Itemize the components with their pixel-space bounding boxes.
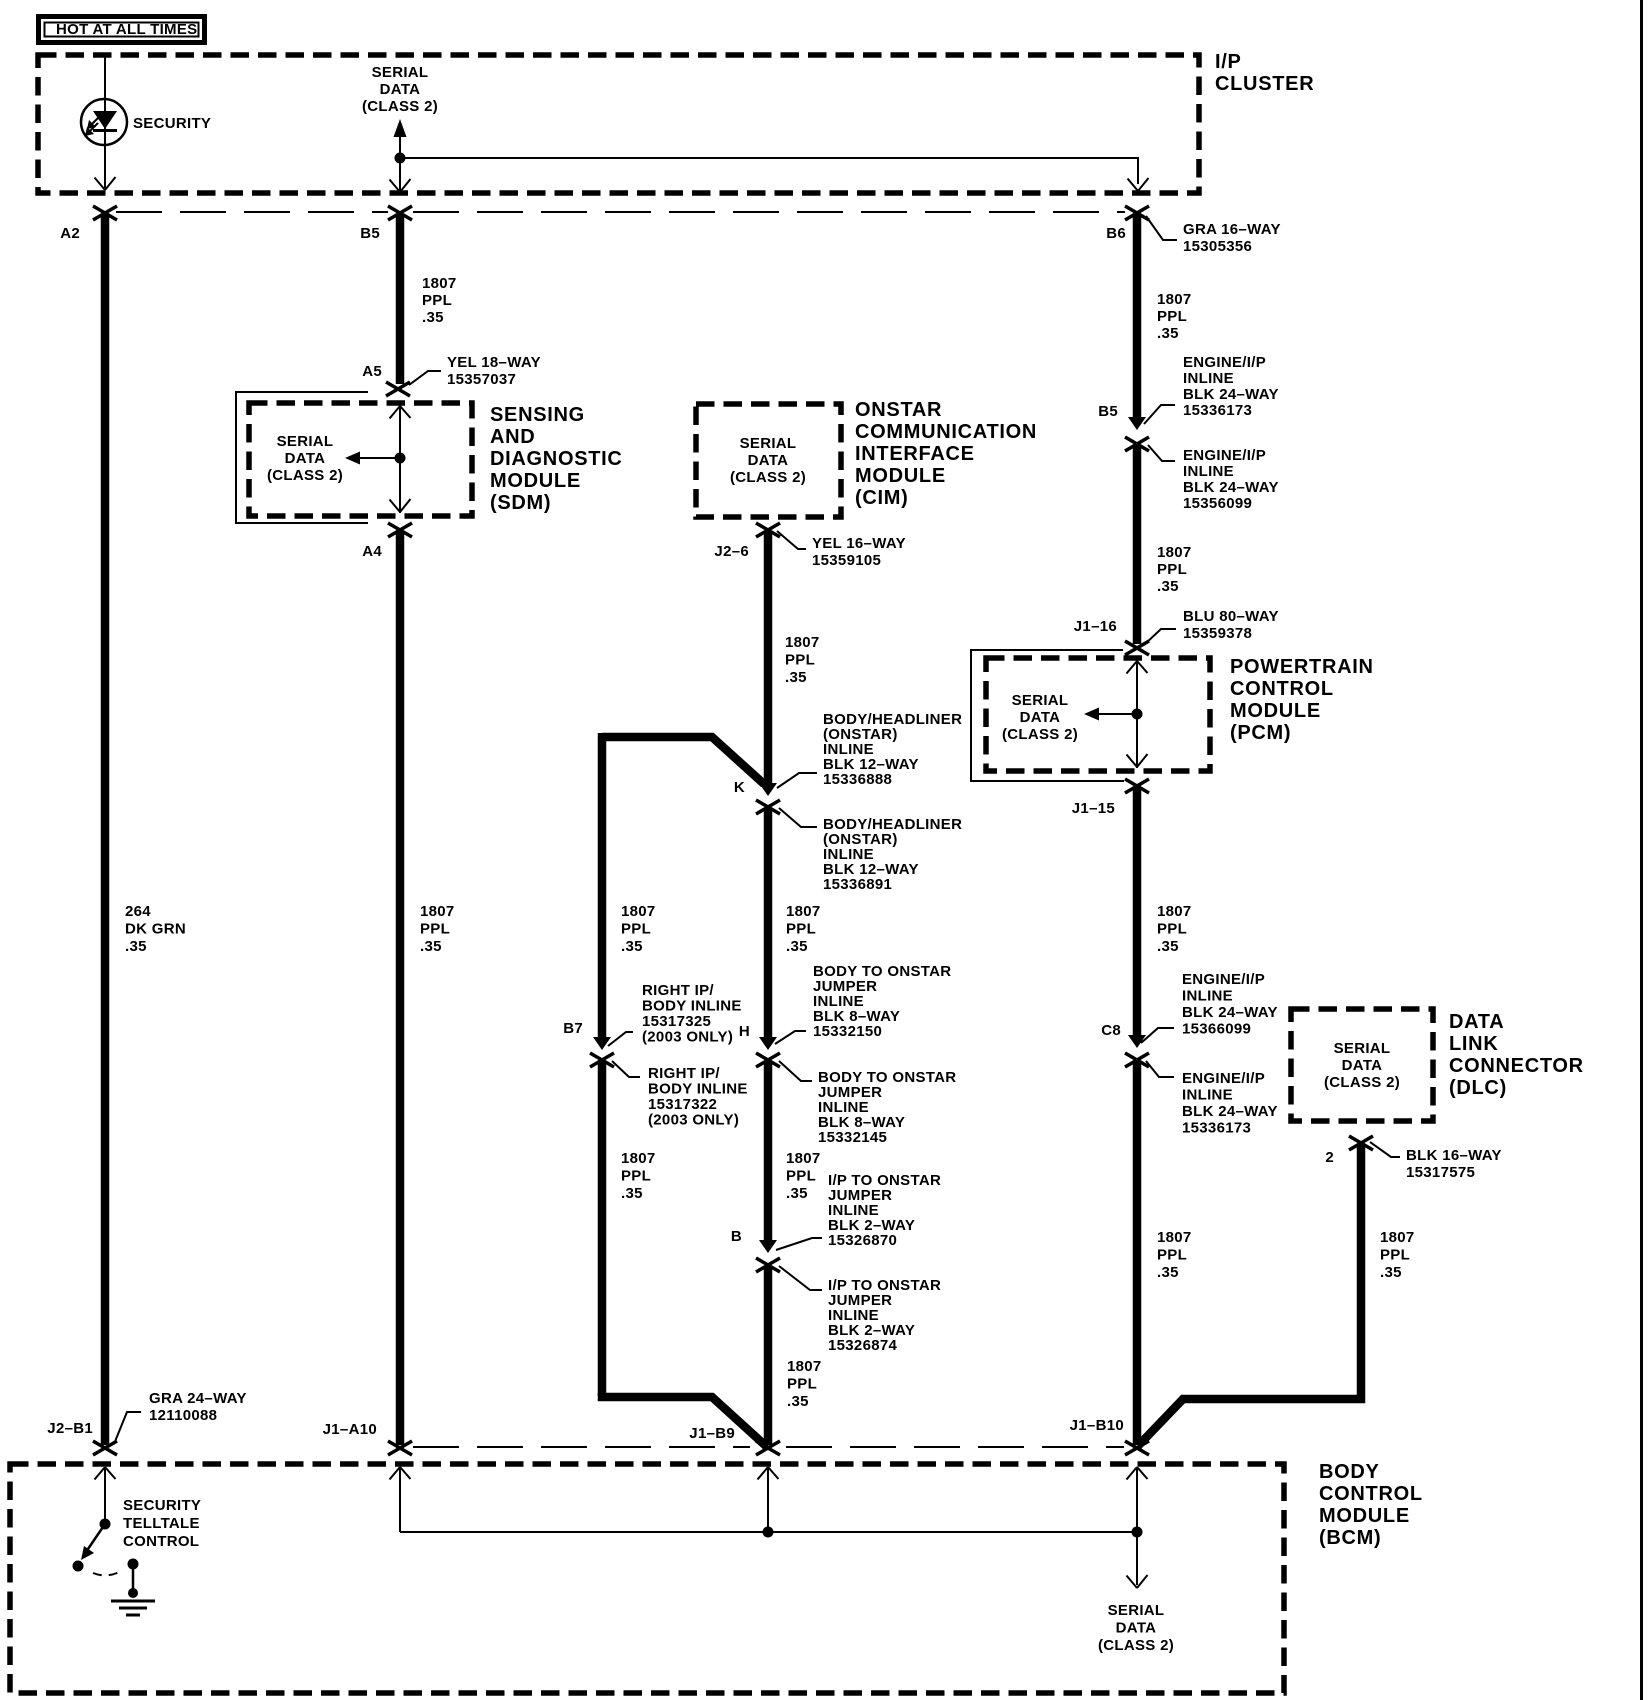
node A5 connector chevron [386, 382, 410, 396]
junction dot SDM [395, 453, 406, 464]
wire B7 vertical lower [598, 1062, 607, 1396]
connector bracket SDM [236, 392, 368, 523]
svg-text:BODY/HEADLINER(ONSTAR)INLINEBL: BODY/HEADLINER(ONSTAR)INLINEBLK 12–WAY15… [823, 711, 962, 788]
connector label BLK 16-WAY 15317575 [1370, 1142, 1502, 1181]
svg-text:C8: C8 [1101, 1022, 1121, 1039]
svg-text:1807PPL.35: 1807PPL.35 [1157, 544, 1192, 595]
svg-text:J2–B1: J2–B1 [47, 1420, 93, 1437]
module box PCM [986, 658, 1210, 771]
node B6 connector chevron [1125, 206, 1149, 220]
connector label ENGINE/I/P INLINE BLK 24-WAY 15366099 [1141, 971, 1278, 1043]
connector label BODY/HEADLINER (ONSTAR) INLINE BLK 12-WAY 15336891 [779, 808, 962, 893]
svg-text:ENGINE/I/PINLINEBLK 24–WAY1533: ENGINE/I/PINLINEBLK 24–WAY15336173 [1183, 354, 1279, 419]
svg-text:B: B [731, 1228, 742, 1245]
arrow down SDM bottom [390, 499, 411, 512]
node B inline arrow down [759, 1240, 777, 1253]
svg-text:A2: A2 [60, 225, 80, 242]
node J1-B10 connector chevron [1125, 1441, 1149, 1455]
svg-text:SERIALDATA(CLASS 2): SERIALDATA(CLASS 2) [730, 435, 806, 486]
svg-text:J2–6: J2–6 [714, 543, 749, 560]
svg-text:A5: A5 [362, 363, 382, 380]
svg-text:1807PPL.35: 1807PPL.35 [621, 1150, 656, 1202]
svg-text:BLU 80–WAY15359378: BLU 80–WAY15359378 [1183, 608, 1279, 642]
LED SECURITY indicator [81, 99, 127, 145]
wire B7 bend to J1-B9 [602, 1393, 767, 1447]
svg-text:2: 2 [1325, 1149, 1334, 1166]
svg-text:J1–A10: J1–A10 [323, 1421, 377, 1438]
svg-text:SERIALDATA(CLASS 2): SERIALDATA(CLASS 2) [362, 64, 438, 115]
wire to J1-16 1807 PPL [1133, 446, 1142, 644]
svg-text:J1–B9: J1–B9 [689, 1425, 735, 1442]
arrow up BCM J2-B1 entry [95, 1467, 116, 1521]
svg-text:ENGINE/I/PINLINEBLK 24–WAY1533: ENGINE/I/PINLINEBLK 24–WAY15336173 [1182, 1070, 1278, 1137]
connector label YEL 18-WAY 15357037 [409, 354, 541, 388]
node J1-A10 connector chevron [388, 1441, 412, 1455]
arrow up BCM J1-B10 entry [1127, 1467, 1148, 1585]
connector label ENGINE/I/P INLINE BLK 24-WAY 15336173 [1144, 354, 1279, 424]
svg-text:BODY TO ONSTARJUMPERINLINEBLK: BODY TO ONSTARJUMPERINLINEBLK 8–WAY15332… [818, 1069, 956, 1146]
node H inline arrow down [759, 1037, 777, 1050]
svg-text:RIGHT IP/BODY INLINE15317325(2: RIGHT IP/BODY INLINE15317325(2003 ONLY) [642, 982, 742, 1046]
module box SDM [249, 403, 472, 516]
wire H to B 1807 PPL [764, 1062, 773, 1240]
connector label GRA 24-WAY 12110088 [114, 1390, 247, 1444]
svg-text:B7: B7 [563, 1020, 583, 1037]
svg-text:RIGHT IP/BODY INLINE15317322(2: RIGHT IP/BODY INLINE15317322(2003 ONLY) [648, 1065, 748, 1129]
svg-text:B5: B5 [360, 225, 380, 242]
svg-text:SERIALDATA(CLASS 2): SERIALDATA(CLASS 2) [1002, 692, 1078, 743]
wire J2-6 to K 1807 PPL [764, 531, 773, 785]
connector label ENGINE/I/P INLINE BLK 24-WAY 15336173 (lower) [1146, 1061, 1278, 1137]
connector label BODY TO ONSTAR JUMPER INLINE BLK 8-WAY 15332145 [779, 1061, 956, 1146]
node B5 inline arrow down [1128, 417, 1146, 430]
svg-text:J1–16: J1–16 [1074, 618, 1117, 635]
wire DLC to J1-B10 1807 PPL [1138, 1144, 1361, 1446]
junction dot serial data [395, 153, 406, 164]
connector label RIGHT IP/ BODY INLINE 15317325 (2003 ONLY) [608, 982, 742, 1046]
connector label RIGHT IP/ BODY INLINE 15317322 (2003 ONLY) [612, 1061, 748, 1129]
svg-text:I/PCLUSTER: I/PCLUSTER [1215, 51, 1314, 95]
svg-text:J1–15: J1–15 [1072, 800, 1115, 817]
svg-text:B5: B5 [1098, 403, 1118, 420]
arrow down at B5 exit [390, 158, 411, 192]
connector label BODY TO ONSTAR JUMPER INLINE BLK 8-WAY 15332150 [775, 963, 951, 1044]
node J1-16 connector chevron [1125, 641, 1149, 655]
node J2-6 connector chevron [756, 523, 780, 537]
wire K to H 1807 PPL [764, 808, 773, 1037]
svg-text:I/P TO ONSTARJUMPERINLINEBLK 2: I/P TO ONSTARJUMPERINLINEBLK 2–WAY153268… [828, 1172, 941, 1249]
node A2 connector chevron [93, 206, 117, 220]
svg-text:DATALINKCONNECTOR(DLC): DATALINKCONNECTOR(DLC) [1449, 1011, 1584, 1099]
wire B to J1-B9 1807 PPL [764, 1266, 773, 1445]
node K inline arrow down [759, 783, 777, 796]
wire serial data through SDM [399, 405, 401, 513]
svg-text:GRA 24–WAY12110088: GRA 24–WAY12110088 [149, 1390, 247, 1424]
node C8 inline arrow down [1128, 1035, 1146, 1048]
module box DLC [1291, 1009, 1433, 1121]
svg-text:1807PPL.35: 1807PPL.35 [1157, 903, 1192, 955]
arrow down at A2 exit [95, 177, 116, 190]
node J1-15 connector chevron [1125, 779, 1149, 793]
svg-text:K: K [734, 779, 745, 796]
node H lower connector chevron [756, 1053, 780, 1067]
arrow up BCM J1-B9 entry [758, 1467, 779, 1532]
svg-text:HOT AT ALL TIMES: HOT AT ALL TIMES [56, 21, 197, 38]
svg-text:BLK 16–WAY15317575: BLK 16–WAY15317575 [1406, 1147, 1502, 1181]
svg-text:BODY TO ONSTARJUMPERINLINEBLK: BODY TO ONSTARJUMPERINLINEBLK 8–WAY15332… [813, 963, 951, 1040]
svg-text:1807PPL.35: 1807PPL.35 [1157, 1229, 1192, 1281]
connector label BLU 80-WAY 15359378 [1144, 608, 1279, 645]
wire A4 to J1-A10 1807 PPL [396, 531, 405, 1445]
ground in BCM [111, 1564, 155, 1615]
svg-text:1807PPL.35: 1807PPL.35 [786, 903, 821, 955]
svg-text:A4: A4 [362, 543, 382, 560]
connector bracket PCM [971, 650, 1124, 781]
svg-text:1807PPL.35: 1807PPL.35 [1380, 1229, 1415, 1281]
node B7 lower connector chevron [590, 1053, 614, 1067]
arrow up BCM J1-A10 entry [390, 1467, 411, 1532]
junction dot BCM J1-B9 [763, 1527, 774, 1538]
node A4 connector chevron [388, 523, 412, 537]
connector label I/P TO ONSTAR JUMPER INLINE BLK 2-WAY 15326874 [779, 1266, 941, 1354]
arrow down BCM serial data [1127, 1575, 1148, 1588]
module box I/P CLUSTER [38, 55, 1199, 193]
svg-text:SENSINGANDDIAGNOSTICMODULE(SDM: SENSINGANDDIAGNOSTICMODULE(SDM) [490, 404, 623, 514]
wire LED feed [104, 55, 106, 188]
svg-text:1807PPL.35: 1807PPL.35 [422, 275, 457, 326]
wire A2 264 DK GRN [101, 214, 110, 1445]
node J2-B1 connector chevron [93, 1441, 117, 1455]
node K lower connector chevron [756, 800, 780, 814]
arrow up serial data [394, 119, 407, 137]
svg-text:BODY/HEADLINER(ONSTAR)INLINEBL: BODY/HEADLINER(ONSTAR)INLINEBLK 12–WAY15… [823, 816, 962, 893]
svg-text:ENGINE/I/PINLINEBLK 24–WAY1535: ENGINE/I/PINLINEBLK 24–WAY15356099 [1183, 447, 1279, 512]
node DLC pin 2 connector chevron [1349, 1136, 1373, 1150]
arrow down at B6 exit [1128, 178, 1149, 191]
svg-text:SECURITYTELLTALECONTROL: SECURITYTELLTALECONTROL [123, 1497, 201, 1550]
svg-text:SERIALDATA(CLASS 2): SERIALDATA(CLASS 2) [1324, 1040, 1400, 1091]
wire BCM internal serial data bus [400, 1531, 1137, 1533]
svg-text:GRA 16–WAY15305356: GRA 16–WAY15305356 [1183, 221, 1281, 255]
connector label I/P TO ONSTAR JUMPER INLINE BLK 2-WAY 15326870 [776, 1172, 941, 1250]
wire serial data bus in cluster [400, 158, 1138, 184]
svg-text:1807PPL.35: 1807PPL.35 [420, 903, 455, 955]
wire serial data through PCM [1136, 660, 1138, 768]
arrow down PCM bottom [1127, 754, 1148, 767]
node B5 connector chevron [388, 206, 412, 220]
arrow left SDM [345, 452, 360, 465]
arrow up SDM top [390, 406, 411, 419]
switch security telltale [73, 1519, 139, 1576]
svg-text:B6: B6 [1106, 225, 1126, 242]
svg-text:ONSTARCOMMUNICATIONINTERFACEMO: ONSTARCOMMUNICATIONINTERFACEMODULE(CIM) [855, 399, 1037, 509]
svg-text:1807PPL.35: 1807PPL.35 [787, 1358, 822, 1410]
svg-text:I/P TO ONSTARJUMPERINLINEBLK 2: I/P TO ONSTARJUMPERINLINEBLK 2–WAY153268… [828, 1277, 941, 1354]
wire B5 to A5 1807 PPL [396, 214, 405, 384]
node J1-B9 connector chevron [756, 1441, 780, 1455]
module box CIM [696, 404, 841, 517]
svg-text:1807PPL.35: 1807PPL.35 [786, 1150, 821, 1202]
connector label GRA 16-WAY 15305356 [1146, 216, 1281, 255]
svg-text:YEL 18–WAY15357037: YEL 18–WAY15357037 [447, 354, 541, 388]
svg-text:BODYCONTROLMODULE(BCM): BODYCONTROLMODULE(BCM) [1319, 1461, 1423, 1549]
svg-text:YEL 16–WAY15359105: YEL 16–WAY15359105 [812, 535, 906, 569]
power label HOT AT ALL TIMES [39, 17, 205, 43]
svg-text:J1–B10: J1–B10 [1070, 1417, 1124, 1434]
junction dot BCM J1-B10 [1132, 1527, 1143, 1538]
node B7 inline arrow down [593, 1037, 611, 1050]
wire stub to serial data text SDM [357, 457, 400, 459]
arrow left PCM [1084, 708, 1099, 721]
svg-text:1807PPL.35: 1807PPL.35 [621, 903, 656, 955]
svg-text:SERIALDATA(CLASS 2): SERIALDATA(CLASS 2) [1098, 1602, 1174, 1654]
svg-text:264DK GRN.35: 264DK GRN.35 [125, 903, 186, 955]
wire J1-15 to C8 1807 PPL [1133, 787, 1142, 1036]
wire C8 to J1-B10 1807 PPL [1133, 1062, 1142, 1445]
wire B7 vertical upper [598, 733, 607, 1037]
svg-text:ENGINE/I/PINLINEBLK 24–WAY1536: ENGINE/I/PINLINEBLK 24–WAY15366099 [1182, 971, 1278, 1038]
svg-text:1807PPL.35: 1807PPL.35 [1157, 291, 1192, 342]
node B5 lower connector chevron [1125, 437, 1149, 451]
wire B6 to B5 inline 1807 PPL [1133, 214, 1142, 418]
svg-text:SECURITY: SECURITY [133, 115, 211, 132]
wire stub to serial data text PCM [1096, 713, 1137, 715]
svg-text:POWERTRAINCONTROLMODULE(PCM): POWERTRAINCONTROLMODULE(PCM) [1230, 656, 1374, 744]
connector label BODY/HEADLINER (ONSTAR) INLINE BLK 12-WAY 15336888 [777, 711, 962, 788]
node B lower connector chevron [756, 1258, 780, 1272]
svg-text:1807PPL.35: 1807PPL.35 [785, 634, 820, 686]
arrow up PCM top [1127, 661, 1148, 674]
junction dot PCM [1132, 709, 1143, 720]
module box BCM [10, 1464, 1284, 1693]
connector label ENGINE/I/P INLINE BLK 24-WAY 15356099 [1148, 445, 1279, 512]
connector label YEL 16-WAY 15359105 [777, 531, 906, 569]
connector boundary line above BCM [413, 1446, 750, 1448]
svg-text:H: H [739, 1023, 750, 1040]
node C8 lower connector chevron [1125, 1053, 1149, 1067]
wire branch B7 horizontal to K [602, 737, 764, 784]
svg-text:SERIALDATA(CLASS 2): SERIALDATA(CLASS 2) [267, 433, 343, 484]
connector boundary line below I/P cluster [116, 211, 388, 213]
page border right [1640, 0, 1643, 1700]
